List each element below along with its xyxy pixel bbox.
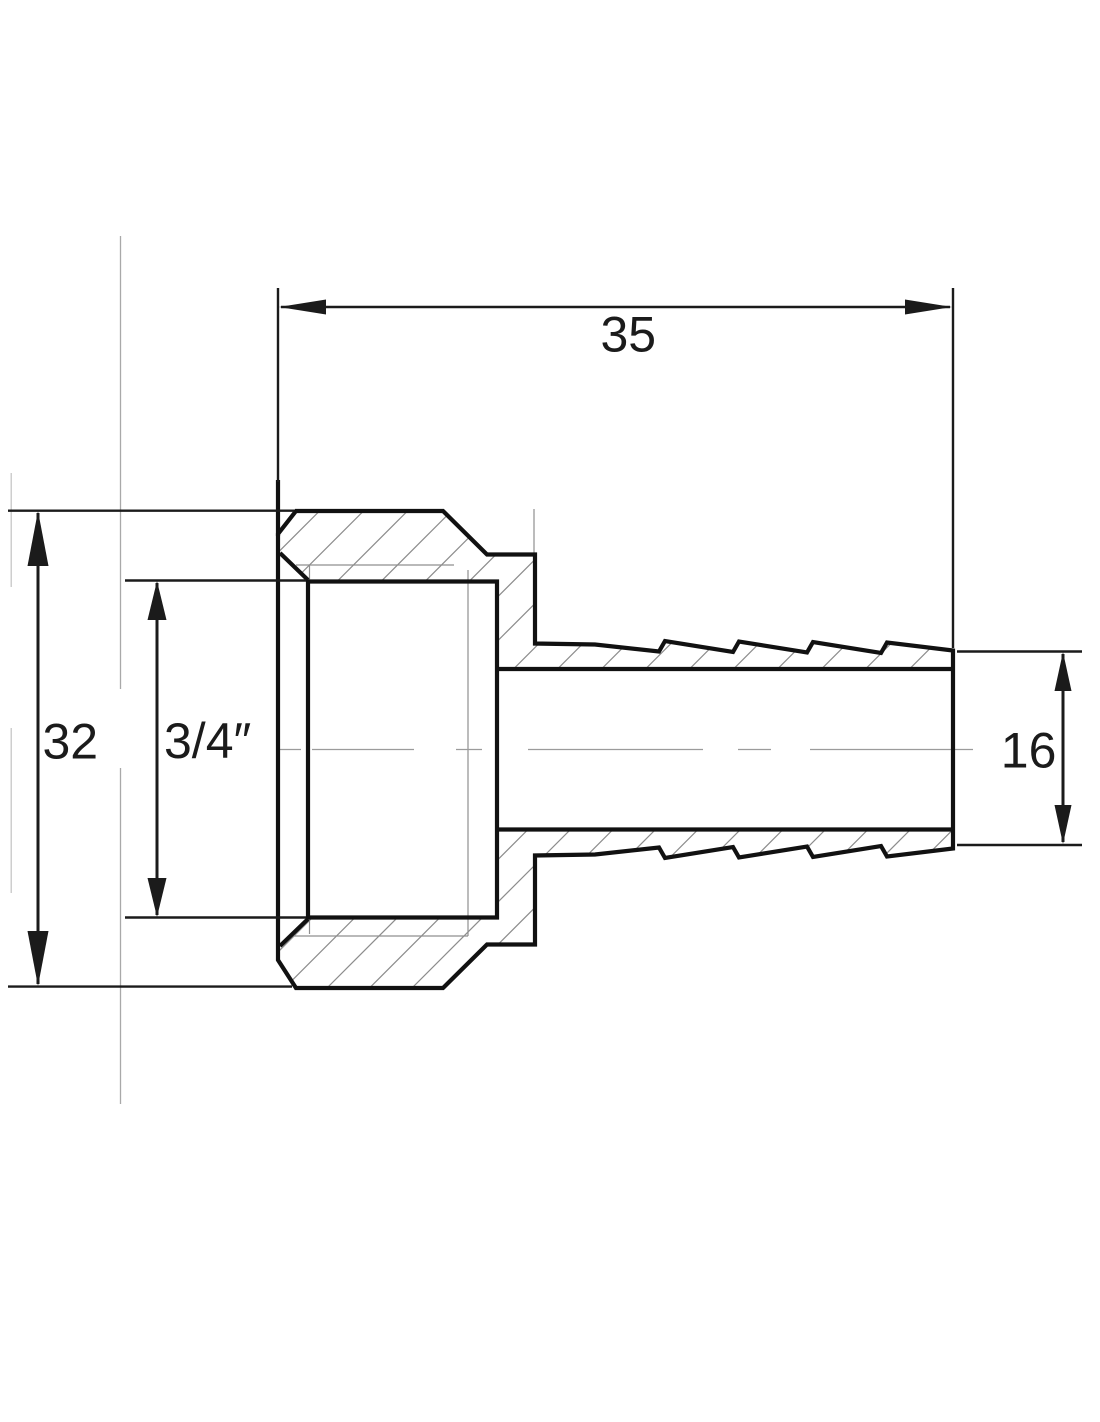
svg-text:16: 16: [1001, 722, 1057, 778]
svg-text:35: 35: [601, 307, 657, 363]
svg-text:32: 32: [43, 714, 99, 770]
svg-text:3/4″: 3/4″: [164, 713, 251, 769]
